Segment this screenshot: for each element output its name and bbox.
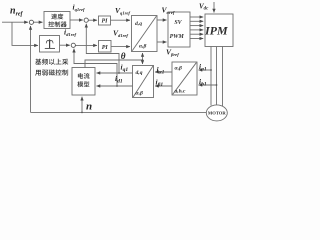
svg-text:SV: SV	[174, 20, 182, 26]
svg-text:α,β: α,β	[139, 44, 146, 50]
svg-text:n: n	[86, 101, 92, 113]
svg-text:Vβref: Vβref	[166, 48, 179, 58]
svg-text:ib1: ib1	[199, 77, 207, 88]
svg-text:Vd1ref: Vd1ref	[113, 29, 128, 39]
svg-text:Vdc: Vdc	[199, 2, 209, 11]
svg-text:Vαref: Vαref	[162, 6, 175, 16]
svg-text:α,β: α,β	[175, 66, 182, 72]
svg-text:α,β: α,β	[136, 91, 143, 97]
svg-text:iq1: iq1	[121, 63, 129, 74]
svg-text:ia1: ia1	[199, 62, 207, 73]
svg-text:nref: nref	[10, 6, 24, 18]
svg-text:MOTOR: MOTOR	[208, 111, 226, 116]
svg-text:PI: PI	[102, 19, 109, 25]
svg-text:id1: id1	[115, 74, 123, 85]
svg-text:θ: θ	[121, 51, 126, 61]
svg-text:PI: PI	[102, 45, 109, 51]
svg-text:iα1: iα1	[157, 65, 165, 76]
svg-text:iq1ref: iq1ref	[73, 3, 86, 13]
svg-text:d,q: d,q	[136, 70, 143, 76]
svg-text:a,b,c: a,b,c	[175, 89, 186, 95]
svg-text:IPM: IPM	[204, 24, 228, 38]
svg-text:d,q: d,q	[135, 21, 142, 27]
svg-text:Vq1ref: Vq1ref	[115, 6, 130, 16]
svg-text:PWM: PWM	[170, 34, 185, 40]
svg-text:iβ1: iβ1	[156, 78, 164, 89]
